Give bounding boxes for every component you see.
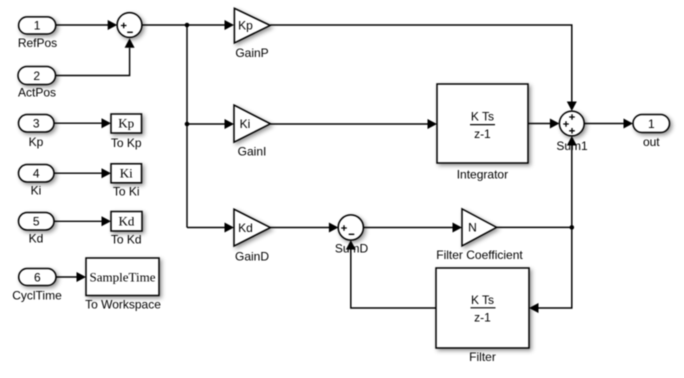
gain N Filter Coefficient — [436, 209, 523, 262]
wire inport 6 to To Workspace — [56, 276, 77, 278]
wire GainI to Integrator — [270, 123, 427, 125]
svg-text:Kd: Kd — [29, 232, 44, 246]
goto block To Kp — [111, 114, 142, 150]
sum SumErr — [117, 13, 142, 38]
svg-text:Kd: Kd — [238, 221, 253, 235]
gain GainP — [234, 8, 270, 60]
inport 5 Kd — [19, 213, 55, 246]
svg-text:ActPos: ActPos — [18, 85, 56, 99]
svg-text:Filter Coefficient: Filter Coefficient — [436, 248, 523, 262]
junction node top — [185, 23, 190, 28]
wire branch to GainD — [187, 227, 225, 229]
svg-text:Kp: Kp — [29, 135, 44, 149]
junction node middle — [185, 122, 190, 127]
wire inport 5 to To Kd — [54, 220, 102, 222]
sum Sum1 — [556, 111, 588, 153]
wire SumErr to GainP with branch junction — [142, 24, 225, 26]
wire branch to GainI — [187, 123, 225, 125]
inport 6 CyclTime — [12, 269, 62, 303]
wire inport 4 to To Ki — [54, 172, 102, 174]
wire Integrator to Sum1 — [528, 123, 550, 125]
svg-text:CyclTime: CyclTime — [12, 289, 62, 303]
svg-text:To Ki: To Ki — [113, 185, 140, 199]
svg-text:4: 4 — [33, 167, 40, 181]
svg-text:To Workspace: To Workspace — [85, 297, 161, 311]
sum SumD — [335, 215, 369, 256]
wire RefPos to SumErr — [56, 24, 108, 26]
Filter block — [436, 268, 529, 364]
svg-text:Kd: Kd — [119, 213, 135, 228]
inport 1 RefPos — [18, 17, 57, 50]
junction node right — [570, 225, 575, 230]
wire SumD to N — [363, 227, 452, 229]
svg-text:Kp: Kp — [118, 116, 134, 131]
svg-text:Filter: Filter — [469, 350, 496, 364]
svg-text:1: 1 — [648, 117, 655, 131]
svg-text:Ki: Ki — [31, 184, 42, 198]
svg-text:Ki: Ki — [240, 117, 251, 131]
svg-text:RefPos: RefPos — [18, 36, 57, 50]
svg-text:K Ts: K Ts — [471, 110, 494, 124]
svg-text:3: 3 — [33, 117, 40, 131]
svg-text:To Kd: To Kd — [111, 233, 142, 247]
svg-text:GainP: GainP — [235, 46, 268, 60]
svg-text:2: 2 — [33, 69, 40, 83]
gain GainI — [234, 105, 270, 158]
wire junction down to Filter right — [539, 227, 572, 308]
svg-text:GainI: GainI — [238, 144, 267, 158]
wire ActPos to SumErr bottom — [56, 48, 130, 76]
wire vertical branch — [186, 25, 188, 228]
wire Filter to SumD bottom — [351, 250, 436, 309]
goto block To Ki — [111, 164, 142, 199]
svg-text:K Ts: K Ts — [471, 293, 494, 307]
inport 2 ActPos — [18, 67, 56, 100]
To Workspace block SampleTime — [85, 258, 161, 311]
wire GainD to SumD — [270, 227, 329, 229]
svg-text:Kp: Kp — [238, 19, 253, 33]
wire junction up to Sum1 bottom — [571, 146, 573, 228]
svg-text:SampleTime: SampleTime — [90, 269, 156, 284]
svg-text:Integrator: Integrator — [457, 168, 508, 182]
Integrator block — [437, 84, 528, 182]
wire GainP to Sum1 top — [270, 25, 572, 102]
svg-text:z-1: z-1 — [474, 127, 491, 141]
svg-text:5: 5 — [33, 215, 40, 229]
wire inport 3 to To Kp — [54, 122, 102, 124]
svg-text:To Kp: To Kp — [111, 136, 142, 150]
svg-text:1: 1 — [34, 19, 41, 33]
goto block To Kd — [111, 212, 142, 247]
wire Sum1 to outport — [584, 123, 623, 125]
svg-text:6: 6 — [34, 270, 41, 284]
inport 3 Kp — [19, 115, 55, 150]
svg-text:N: N — [468, 221, 477, 235]
gain GainD — [234, 209, 270, 263]
wire N to junction — [497, 226, 572, 228]
inport 4 Ki — [19, 165, 55, 198]
svg-text:Ki: Ki — [120, 166, 133, 181]
svg-text:GainD: GainD — [235, 249, 269, 263]
svg-text:out: out — [643, 135, 660, 149]
outport 1 out — [633, 115, 670, 149]
svg-text:z-1: z-1 — [474, 310, 491, 324]
